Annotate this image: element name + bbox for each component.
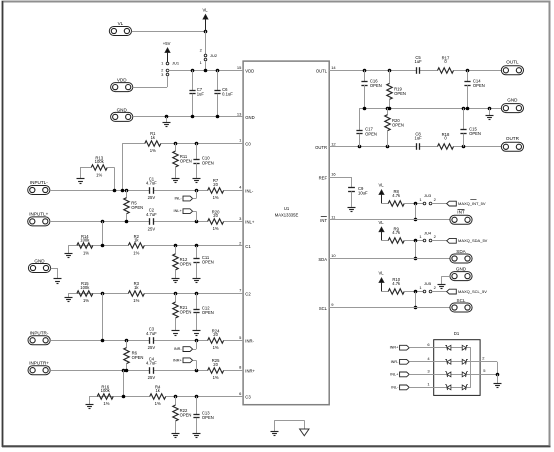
svg-text:1uF: 1uF bbox=[197, 92, 205, 97]
wire INT row bbox=[329, 219, 450, 221]
wire VDD rail bbox=[168, 69, 243, 73]
svg-text:OPEN: OPEN bbox=[202, 415, 214, 420]
capacitor C3 4.7uF 25V bbox=[146, 327, 157, 351]
ground R21 bbox=[172, 331, 180, 336]
svg-text:OPEN: OPEN bbox=[180, 413, 192, 418]
capacitor C13 OPEN bbox=[193, 396, 213, 433]
resistor R20 OPEN shunt bbox=[385, 108, 404, 147]
resistor R4 1k bbox=[150, 384, 166, 406]
wire OUTL row bbox=[329, 69, 501, 73]
wire INR+ to R4 node bbox=[123, 370, 125, 396]
node INR- flag to D1 bbox=[391, 356, 434, 364]
capacitor C17 OPEN bbox=[356, 108, 377, 147]
svg-text:OPEN: OPEN bbox=[392, 122, 404, 127]
svg-text:VL: VL bbox=[378, 271, 384, 276]
resistor R16 100k bbox=[97, 384, 113, 406]
power +5V arrow bbox=[163, 41, 171, 62]
svg-text:1%: 1% bbox=[83, 250, 89, 255]
jumper JU4 bbox=[419, 230, 436, 242]
svg-text:INPUTL+: INPUTL+ bbox=[29, 212, 48, 217]
diode pair D1 INL+ bbox=[434, 372, 480, 378]
power VL arrow SCL bbox=[378, 271, 388, 292]
svg-text:OPEN: OPEN bbox=[202, 160, 214, 165]
svg-text:4.7uF: 4.7uF bbox=[146, 331, 157, 336]
svg-text:25V: 25V bbox=[148, 375, 156, 380]
resistor R3 1k bbox=[128, 281, 144, 303]
svg-text:INR+: INR+ bbox=[245, 369, 255, 374]
wire pull-up to SDA row bbox=[414, 241, 418, 261]
diode pair D1 INR+ bbox=[434, 345, 471, 350]
svg-text:INL-: INL- bbox=[245, 188, 254, 193]
svg-text:4.7k: 4.7k bbox=[392, 193, 401, 198]
svg-text:OPEN: OPEN bbox=[202, 310, 214, 315]
svg-text:INT: INT bbox=[457, 210, 465, 215]
wire R13 right to INL- bbox=[107, 167, 114, 190]
node INR+ flag bbox=[173, 358, 197, 370]
svg-text:1%: 1% bbox=[83, 298, 89, 303]
capacitor C10 OPEN bbox=[193, 143, 213, 178]
wire R13 left to ground bbox=[80, 167, 91, 179]
svg-text:1%: 1% bbox=[213, 345, 219, 350]
connector SDA pad bbox=[450, 249, 472, 263]
svg-text:C3: C3 bbox=[245, 395, 251, 400]
node VL junction bbox=[204, 30, 208, 34]
connector GND pad left bbox=[28, 258, 50, 272]
ground R16 bbox=[86, 405, 94, 409]
capacitor C11 OPEN bbox=[193, 246, 213, 279]
svg-text:OPEN: OPEN bbox=[180, 262, 192, 267]
svg-text:OPEN: OPEN bbox=[469, 131, 481, 136]
svg-text:INL-: INL- bbox=[175, 197, 183, 201]
svg-text:20: 20 bbox=[213, 182, 218, 187]
ground GND rail bbox=[163, 117, 171, 127]
svg-text:OUTL: OUTL bbox=[506, 60, 519, 65]
resistor R5 OPEN bbox=[124, 190, 143, 221]
svg-text:15: 15 bbox=[237, 65, 242, 70]
wire VL connector to node bbox=[132, 31, 205, 33]
wire INPUTL+ row bbox=[50, 220, 243, 224]
power VL arrow INT bbox=[378, 183, 388, 204]
wire GND rail bbox=[133, 115, 243, 119]
resistor R7 20 1% bbox=[208, 178, 224, 200]
capacitor C4 4.7uF 25V bbox=[146, 357, 157, 381]
svg-text:SCL: SCL bbox=[319, 306, 328, 311]
IC U1 MAX13335E box bbox=[243, 61, 329, 405]
resistor R6 OPEN bbox=[124, 340, 144, 370]
svg-text:C0: C0 bbox=[245, 141, 251, 146]
resistor R25 20 1% bbox=[208, 358, 224, 380]
wire GND right to ground bbox=[442, 276, 450, 284]
wire pull-up to SCL row bbox=[414, 292, 418, 310]
svg-text:GND: GND bbox=[245, 115, 254, 120]
svg-text:INR-: INR- bbox=[174, 347, 183, 351]
svg-text:SDA: SDA bbox=[456, 249, 466, 254]
diode pair D1 INR- bbox=[434, 359, 480, 364]
svg-text:INL+: INL+ bbox=[390, 372, 399, 376]
diode pair D1 INL- bbox=[434, 385, 471, 391]
resistor R10 4.7k bbox=[388, 277, 404, 294]
node flag MAXQ_INT_5V bbox=[432, 200, 486, 207]
capacitor C12 OPEN bbox=[193, 293, 213, 331]
svg-text:INPUTL-: INPUTL- bbox=[30, 180, 48, 185]
resistor R2 1k bbox=[128, 234, 144, 256]
svg-text:C2: C2 bbox=[245, 292, 251, 297]
svg-text:20: 20 bbox=[213, 213, 218, 218]
wire R10 to junction bbox=[404, 290, 423, 294]
capacitor C15 OPEN bbox=[460, 108, 481, 147]
svg-text:VL: VL bbox=[378, 183, 384, 188]
node INL+ flag bbox=[174, 209, 197, 222]
svg-text:INL+: INL+ bbox=[174, 209, 183, 213]
svg-text:INPUTR-: INPUTR- bbox=[30, 330, 49, 335]
connector INPUTL+ pad bbox=[28, 212, 50, 226]
svg-text:JU3: JU3 bbox=[424, 193, 432, 198]
jumper JU5 bbox=[419, 281, 436, 293]
resistor R22 OPEN bbox=[173, 396, 192, 433]
capacitor C8 1uF bbox=[414, 131, 422, 149]
svg-text:20: 20 bbox=[213, 332, 218, 337]
svg-text:INR+: INR+ bbox=[173, 358, 183, 362]
svg-text:1%: 1% bbox=[96, 172, 102, 177]
wire JU2 to VDD rail bbox=[205, 61, 207, 70]
wire R1 to INL- node bbox=[122, 143, 124, 190]
svg-text:20: 20 bbox=[213, 362, 218, 367]
svg-text:OPEN: OPEN bbox=[473, 83, 485, 88]
svg-text:14: 14 bbox=[331, 65, 336, 70]
resistor R12 OPEN bbox=[173, 246, 192, 279]
svg-text:4.7uF: 4.7uF bbox=[146, 212, 157, 217]
resistor R24 20 1% bbox=[208, 328, 224, 350]
node INL- flag bbox=[175, 190, 197, 201]
power VL arrow bbox=[202, 7, 208, 31]
svg-text:4.7uF: 4.7uF bbox=[146, 361, 157, 366]
wire C1 rail bbox=[77, 244, 243, 248]
capacitor C6 0.1uF bbox=[214, 70, 233, 117]
resistor R15 100k bbox=[77, 281, 93, 303]
ground C9 bbox=[348, 208, 356, 212]
svg-text:OPEN: OPEN bbox=[131, 205, 143, 210]
connector GND pad right-top bbox=[501, 97, 523, 112]
capacitor C9 10uF bbox=[348, 186, 368, 207]
resistor R14 100k bbox=[77, 234, 93, 256]
capacitor C16 OPEN bbox=[361, 70, 381, 108]
svg-text:C1: C1 bbox=[245, 244, 251, 249]
svg-text:REF: REF bbox=[319, 175, 328, 180]
svg-text:OPEN: OPEN bbox=[394, 91, 406, 96]
resistor R8 4.7k bbox=[388, 189, 404, 206]
wire exposed pad bracket bbox=[274, 420, 304, 431]
resistor R11 OPEN bbox=[173, 143, 192, 178]
node INL- flag to D1 bbox=[391, 382, 433, 390]
wire GND left to ground bbox=[51, 268, 58, 279]
svg-text:SDA: SDA bbox=[318, 257, 327, 262]
ground R22 bbox=[172, 434, 180, 438]
svg-text:100k: 100k bbox=[80, 285, 90, 290]
capacitor C7 1uF bbox=[189, 70, 204, 117]
svg-text:MAX13335E: MAX13335E bbox=[275, 212, 299, 217]
svg-text:+5V: +5V bbox=[163, 41, 171, 46]
power VL arrow SDA bbox=[378, 220, 388, 241]
capacitor C2 4.7uF 25V bbox=[146, 208, 157, 232]
connector INPUTL- pad bbox=[28, 180, 50, 194]
svg-text:VL: VL bbox=[118, 21, 124, 26]
svg-text:MAXQ_SDA_5V: MAXQ_SDA_5V bbox=[458, 238, 488, 243]
connector OUTR pad bbox=[501, 136, 523, 151]
svg-text:1%: 1% bbox=[133, 250, 139, 255]
resistor R9 4.7k bbox=[388, 226, 404, 243]
connector SCL pad bbox=[450, 298, 472, 312]
wire VL to JU2 bbox=[205, 31, 207, 54]
connector VL pad bbox=[109, 21, 131, 35]
U1 left pin numbers and labels bbox=[237, 65, 256, 400]
svg-text:1%: 1% bbox=[133, 298, 139, 303]
svg-text:100k: 100k bbox=[95, 159, 105, 164]
capacitor C5 1uF bbox=[414, 55, 422, 74]
svg-text:1%: 1% bbox=[213, 375, 219, 380]
node INR- flag bbox=[174, 340, 197, 351]
wire C2 node to INR- bbox=[102, 293, 104, 340]
ground R11 bbox=[172, 179, 180, 183]
svg-text:VDD: VDD bbox=[117, 77, 127, 82]
svg-text:1uF: 1uF bbox=[414, 59, 422, 64]
diode array D1 box bbox=[434, 331, 480, 395]
connector VDD pad bbox=[111, 77, 133, 91]
svg-text:1%: 1% bbox=[150, 148, 156, 153]
connector OUTL pad bbox=[501, 60, 523, 75]
svg-text:MAXQ_INT_5V: MAXQ_INT_5V bbox=[458, 201, 486, 206]
svg-text:OPEN: OPEN bbox=[180, 310, 192, 315]
wire SCL row bbox=[329, 307, 450, 309]
capacitor C1 4.7uF 25V bbox=[146, 176, 157, 200]
connector INPUTR+ pad bbox=[28, 360, 50, 374]
ground R14 bbox=[65, 254, 73, 258]
wire output mid rail bbox=[360, 107, 502, 111]
svg-text:VDD: VDD bbox=[245, 69, 254, 74]
svg-text:OPEN: OPEN bbox=[132, 355, 144, 360]
ground C12 bbox=[193, 331, 201, 336]
svg-text:OUTR: OUTR bbox=[506, 136, 520, 141]
wire D1 internal bus bbox=[470, 348, 472, 388]
svg-text:1%: 1% bbox=[103, 401, 109, 406]
svg-text:JU4: JU4 bbox=[424, 230, 432, 235]
resistor R19 OPEN bbox=[387, 70, 406, 108]
svg-text:OPEN: OPEN bbox=[370, 83, 382, 88]
svg-text:GND: GND bbox=[34, 258, 45, 263]
ground mid rail bbox=[486, 108, 494, 119]
U1 right pin numbers and labels bbox=[315, 65, 336, 311]
resistor R13 100k bbox=[91, 155, 107, 177]
wire R8 to junction bbox=[404, 202, 423, 206]
wire R9 to junction bbox=[404, 239, 423, 243]
wire C0 rail bbox=[123, 142, 244, 146]
ground C13 bbox=[193, 434, 201, 438]
wire INL+ to R2 node bbox=[102, 221, 104, 245]
ground R15 bbox=[65, 298, 73, 302]
svg-text:OPEN: OPEN bbox=[202, 260, 214, 265]
wire D1 pin5 to ground node bbox=[480, 368, 499, 376]
svg-text:100k: 100k bbox=[101, 388, 111, 393]
wire C3 rail bbox=[97, 395, 243, 399]
ground R13 bbox=[77, 179, 85, 184]
connector GND pad top bbox=[111, 107, 133, 121]
svg-text:D1: D1 bbox=[454, 331, 460, 336]
wire INPUTL- row bbox=[50, 189, 243, 193]
svg-text:SCL: SCL bbox=[457, 298, 466, 303]
svg-text:MAXQ_SCL_5V: MAXQ_SCL_5V bbox=[458, 289, 487, 294]
capacitor C14 OPEN bbox=[464, 70, 484, 108]
wire OUTR row bbox=[329, 145, 501, 149]
wire INPUTR- row bbox=[50, 339, 243, 343]
svg-text:4.7k: 4.7k bbox=[392, 230, 401, 235]
svg-text:INPUTR+: INPUTR+ bbox=[29, 360, 49, 365]
svg-text:OPEN: OPEN bbox=[365, 131, 377, 136]
svg-text:100k: 100k bbox=[80, 238, 90, 243]
svg-text:U1: U1 bbox=[284, 206, 290, 211]
wire R15 left to ground bbox=[68, 293, 77, 297]
svg-text:INL-: INL- bbox=[391, 385, 399, 389]
ground C11 bbox=[193, 279, 201, 283]
svg-text:INR-: INR- bbox=[245, 339, 254, 344]
svg-text:OUTL: OUTL bbox=[316, 69, 328, 74]
resistor R17 0 bbox=[438, 55, 454, 73]
svg-text:1uF: 1uF bbox=[414, 136, 422, 141]
svg-text:INL+: INL+ bbox=[245, 220, 255, 225]
svg-text:4.7uF: 4.7uF bbox=[146, 181, 157, 186]
wire C2 rail bbox=[77, 292, 243, 296]
jumper JU1 bbox=[161, 61, 180, 77]
ground exposed pad bbox=[271, 432, 279, 436]
svg-text:GND: GND bbox=[456, 266, 467, 271]
chassis ground triangle bbox=[300, 429, 309, 436]
ground D1 bbox=[494, 374, 502, 387]
jumper JU3 bbox=[419, 193, 436, 205]
svg-text:25V: 25V bbox=[148, 345, 156, 350]
wire SDA row bbox=[329, 258, 450, 260]
connector GND pad right-mid bbox=[450, 266, 472, 280]
connector INPUTR- pad bbox=[28, 330, 50, 344]
node INR+ flag to D1 bbox=[390, 342, 434, 350]
wire REF stub bbox=[329, 177, 352, 188]
svg-text:OUTR: OUTR bbox=[315, 145, 327, 150]
wire pull-up to INT row bbox=[414, 204, 418, 222]
resistor R18 0 bbox=[438, 132, 454, 149]
svg-text:VL: VL bbox=[378, 220, 384, 225]
ground C10 bbox=[193, 179, 201, 183]
ground R12 bbox=[172, 279, 180, 283]
wire D1 pin2 to ground node bbox=[480, 355, 497, 374]
svg-text:25V: 25V bbox=[148, 195, 156, 200]
ground GND right bbox=[438, 285, 446, 289]
resistor R21 OPEN bbox=[173, 293, 192, 331]
resistor R20 20 1% bbox=[208, 209, 224, 231]
wire INPUTR+ row bbox=[50, 369, 243, 373]
svg-text:VL: VL bbox=[202, 7, 208, 12]
node flag MAXQ_SDA_5V bbox=[432, 238, 488, 243]
wire R14 left to ground bbox=[68, 246, 77, 254]
svg-text:1%: 1% bbox=[155, 401, 161, 406]
ground GND left bbox=[54, 279, 62, 284]
svg-text:JU2: JU2 bbox=[210, 53, 218, 58]
svg-text:GND: GND bbox=[117, 107, 128, 112]
svg-text:JU1: JU1 bbox=[172, 61, 180, 66]
svg-text:INR+: INR+ bbox=[390, 346, 400, 350]
svg-text:JU5: JU5 bbox=[424, 281, 432, 286]
wire R16 left to ground bbox=[89, 396, 97, 404]
svg-text:16: 16 bbox=[331, 171, 336, 176]
resistor R1 1k bbox=[145, 131, 161, 153]
node flag MAXQ_SCL_5V bbox=[432, 289, 488, 294]
svg-text:10uF: 10uF bbox=[358, 191, 368, 196]
svg-text:GND: GND bbox=[507, 97, 518, 102]
svg-text:13: 13 bbox=[237, 111, 242, 116]
svg-text:INR-: INR- bbox=[391, 360, 400, 364]
svg-text:12: 12 bbox=[331, 141, 336, 146]
svg-text:1%: 1% bbox=[213, 226, 219, 231]
connector INT pad bbox=[450, 210, 472, 225]
svg-text:4.7k: 4.7k bbox=[392, 281, 401, 286]
svg-text:25V: 25V bbox=[148, 226, 156, 231]
svg-text:1%: 1% bbox=[213, 195, 219, 200]
svg-text:OPEN: OPEN bbox=[180, 159, 192, 164]
svg-text:0.1uF: 0.1uF bbox=[222, 92, 233, 97]
node INL+ flag to D1 bbox=[390, 369, 433, 377]
svg-text:INT: INT bbox=[320, 218, 327, 223]
wire VDD connector to JU1 pin3 bbox=[133, 76, 168, 87]
jumper JU2 bbox=[200, 48, 218, 65]
svg-text:10: 10 bbox=[331, 253, 336, 258]
